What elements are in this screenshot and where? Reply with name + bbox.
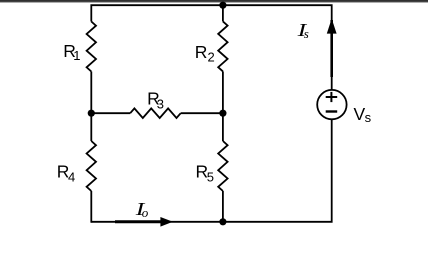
label Is <box>296 20 308 41</box>
wire middle branch bottom lead <box>222 191 224 222</box>
node dot bottom middle <box>219 218 226 225</box>
resistor R1 <box>87 22 96 72</box>
svg-text:5: 5 <box>207 169 214 184</box>
svg-text:3: 3 <box>157 96 164 111</box>
wire R3 left lead <box>91 112 130 114</box>
label R2 <box>195 42 215 65</box>
label Vs <box>354 104 372 125</box>
svg-text:R: R <box>195 42 208 62</box>
label R3 <box>147 89 164 112</box>
wire middle branch between R2 and R5 <box>222 71 224 141</box>
label R5 <box>196 162 214 185</box>
voltage source Vs <box>317 90 346 119</box>
node dot center middle <box>219 110 226 117</box>
svg-text:s: s <box>365 110 372 125</box>
label R1 <box>63 41 80 63</box>
svg-text:s: s <box>304 26 309 41</box>
node dot left middle <box>88 110 95 117</box>
wire R3 right lead <box>181 112 223 114</box>
label R4 <box>57 162 75 185</box>
node dot top middle <box>219 2 226 9</box>
resistor R2 <box>218 21 227 71</box>
resistor R3 <box>130 108 181 118</box>
wire left branch bottom (R4 bottom to bottom-left corner) <box>90 191 92 223</box>
resistor R5 <box>218 141 227 191</box>
svg-text:o: o <box>142 205 149 220</box>
svg-text:4: 4 <box>68 169 75 184</box>
wire middle branch top lead <box>222 5 224 21</box>
svg-text:2: 2 <box>208 50 215 65</box>
wire bottom from left corner to right corner <box>91 119 331 222</box>
wire left branch middle (R1 bottom to R4 top) <box>90 72 92 142</box>
current arrow Is <box>327 19 337 77</box>
wire top from left corner to right corner <box>91 5 331 90</box>
resistor R4 <box>87 141 96 191</box>
current arrow Io <box>115 217 173 227</box>
svg-text:1: 1 <box>73 48 80 63</box>
label Io <box>135 199 149 220</box>
